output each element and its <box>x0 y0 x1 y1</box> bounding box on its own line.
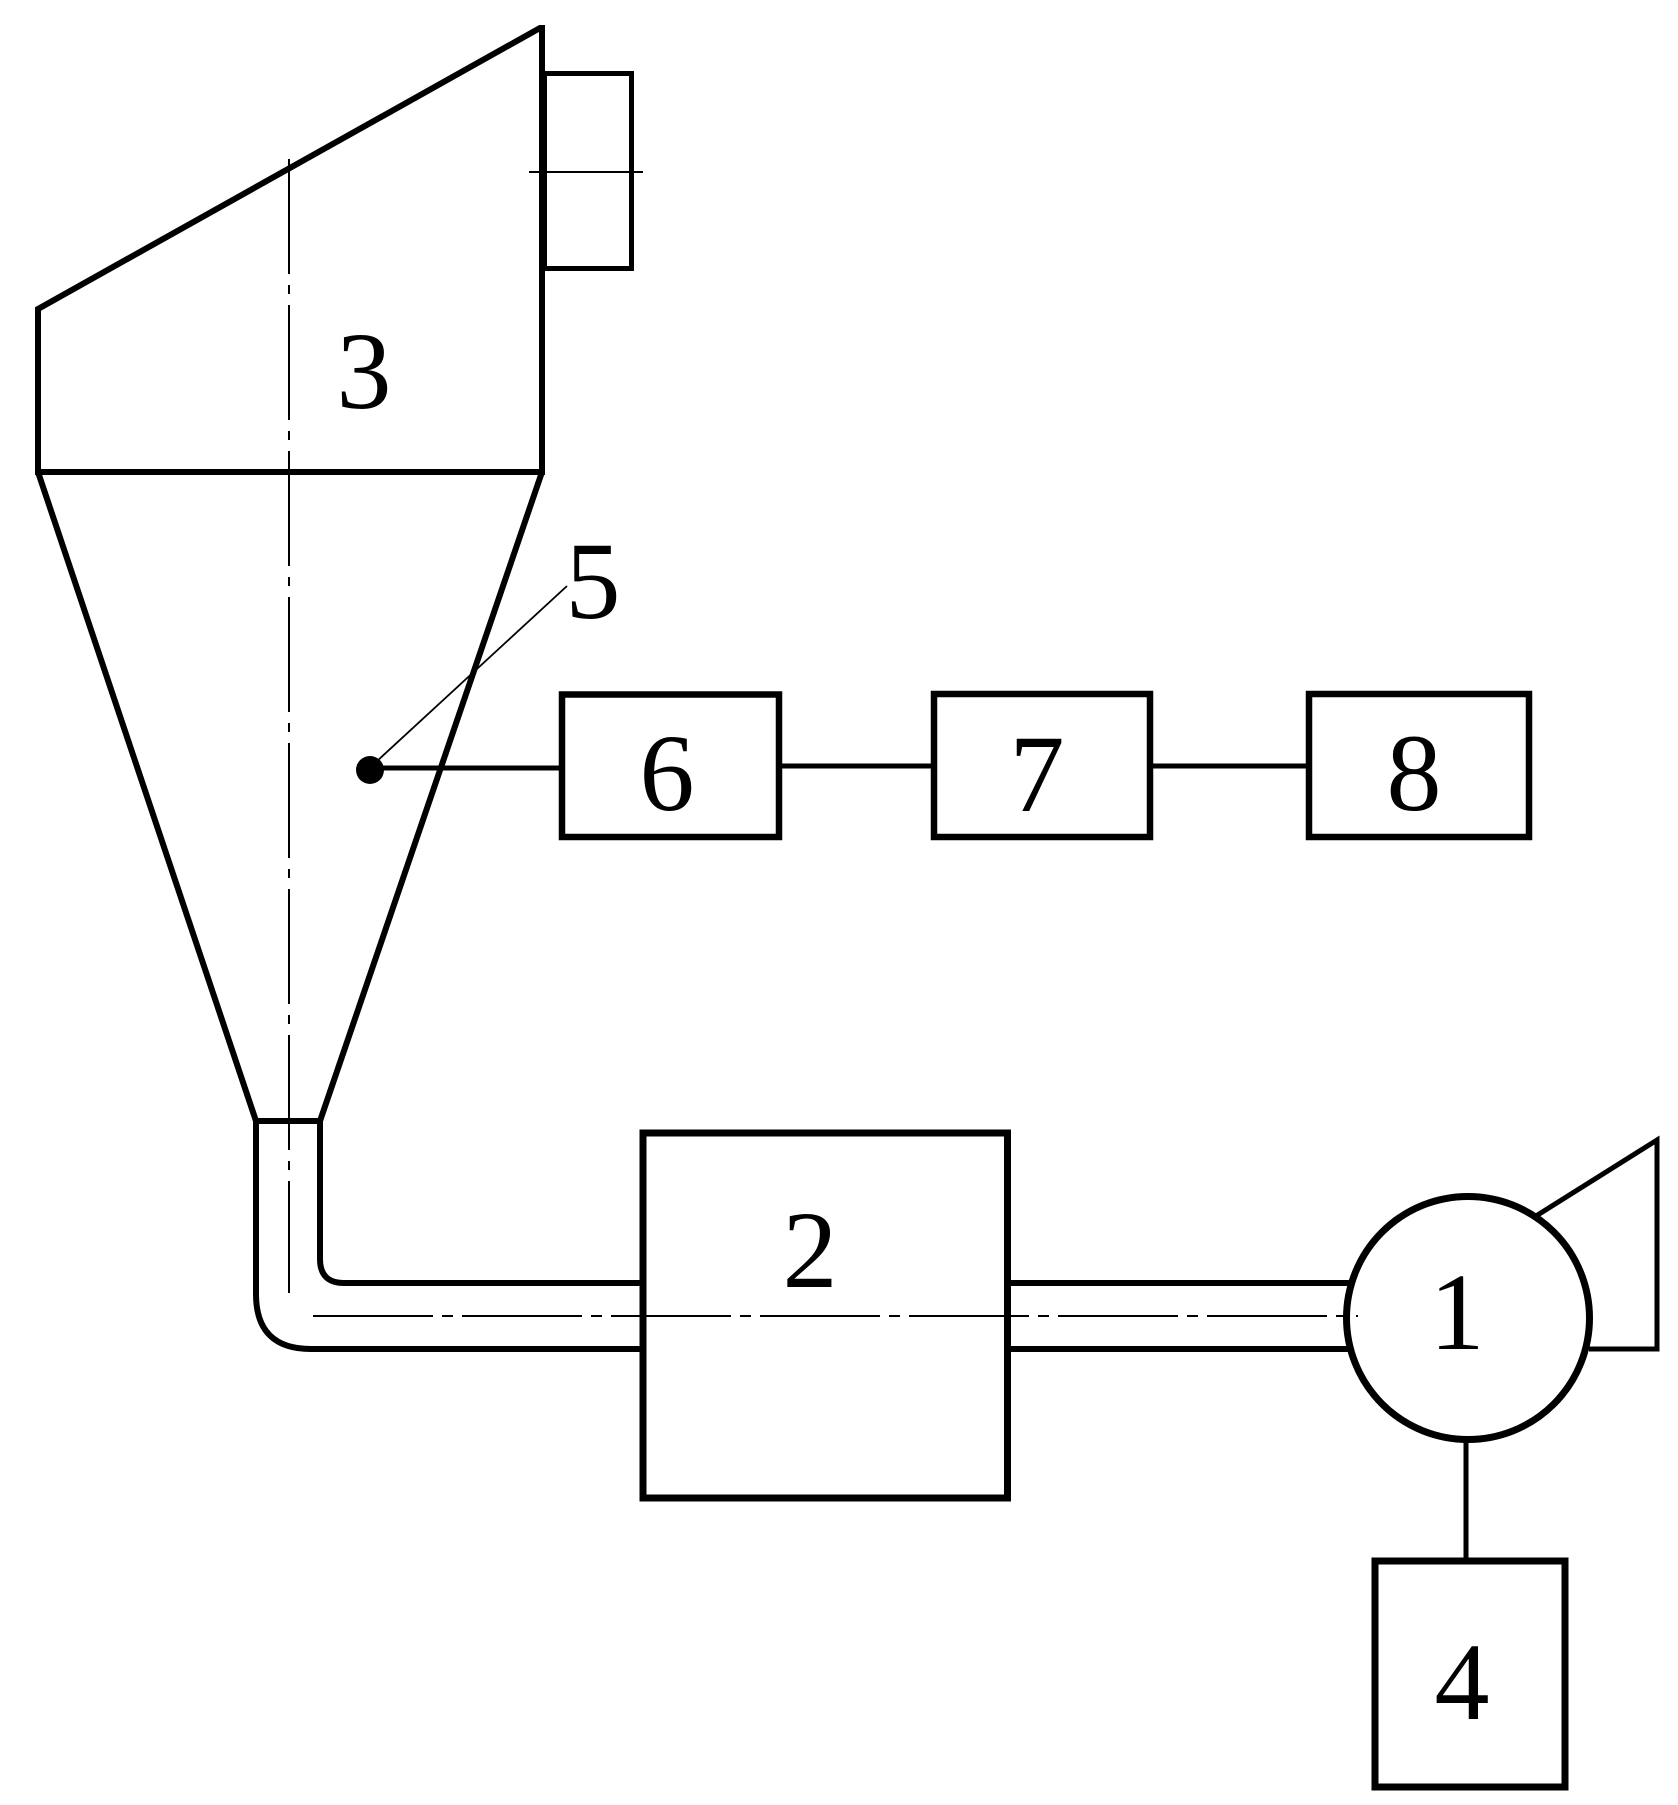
cone left wall <box>38 472 256 1121</box>
cone right wall <box>320 472 542 1121</box>
pipe inner wall with bend <box>320 1118 643 1283</box>
svg-text:3: 3 <box>337 310 392 432</box>
wire 6 to 7 <box>779 764 934 769</box>
svg-text:5: 5 <box>566 520 621 642</box>
svg-text:7: 7 <box>1010 713 1065 835</box>
vertical dash-dot centerline of cyclone <box>288 159 290 1293</box>
horizontal dash-dot centerline of pipe <box>313 1315 1358 1317</box>
pipe from box 2 to fan: bottom wall <box>1011 1346 1352 1352</box>
box 6 <box>562 695 779 838</box>
fan circle 1 <box>1347 1197 1590 1440</box>
svg-text:2: 2 <box>783 1189 838 1311</box>
pipe from box 2 to fan: top wall <box>1011 1280 1350 1286</box>
svg-text:4: 4 <box>1435 1621 1490 1743</box>
outlet duct centerline <box>529 171 643 173</box>
svg-text:6: 6 <box>640 712 695 834</box>
cyclone outlet duct <box>545 74 632 269</box>
wire 7 to 8 <box>1150 764 1309 769</box>
pipe throat cap <box>253 1118 323 1124</box>
sensor wire to box 6 <box>370 766 562 771</box>
shaft line from fan to box 4 <box>1464 1443 1469 1561</box>
box 2 <box>643 1133 1008 1498</box>
leader line to label 5 <box>376 586 567 762</box>
box 7 <box>934 694 1150 837</box>
svg-text:8: 8 <box>1387 712 1442 834</box>
box 8 <box>1309 694 1529 837</box>
box 4 <box>1375 1561 1565 1787</box>
pipe outer wall with bend <box>256 1118 643 1349</box>
cyclone body 3 <box>38 28 542 472</box>
svg-text:1: 1 <box>1430 1251 1485 1373</box>
fan outlet horn <box>1536 1140 1657 1349</box>
sensor dot 5 <box>356 756 384 784</box>
